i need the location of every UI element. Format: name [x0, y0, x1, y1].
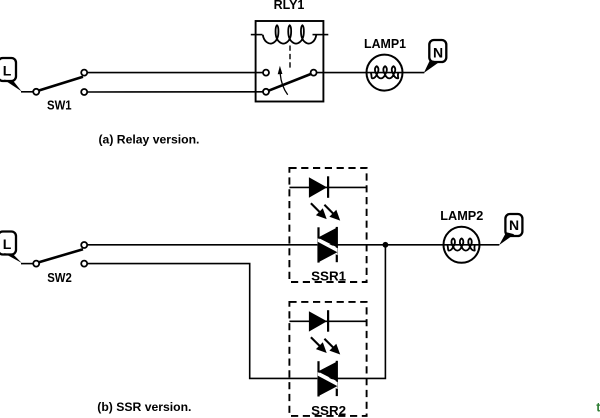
switch SW2 lower throw contact [81, 261, 87, 267]
switch SW1 lower throw contact [81, 89, 87, 95]
solid-state relay SSR2 dashed package outline [289, 302, 366, 416]
SSR1 triac left terminal bar [317, 227, 319, 262]
svg-text:t: t [596, 400, 600, 414]
solid-state relay SSR1 dashed package outline [289, 168, 366, 282]
switch SW1 blade [39, 77, 83, 91]
SSR2 triac left terminal bar [317, 361, 319, 396]
SSR2 LED (anode triangle) [309, 311, 327, 331]
SSR1 triac right terminal bar [336, 227, 338, 262]
svg-text:N: N [433, 44, 443, 60]
SSR2 triac right terminal bar [336, 361, 338, 396]
switch SW1 upper throw contact [81, 70, 87, 76]
svg-text:N: N [509, 217, 519, 233]
SSR2 LED input wire [289, 320, 366, 322]
relay RLY1 body outline [256, 21, 324, 102]
lamp LAMP1 bulb [367, 55, 403, 91]
RLY1 coil right lead [313, 34, 329, 36]
SSR1 LED input wire [289, 186, 366, 188]
svg-text:RLY1: RLY1 [274, 0, 305, 12]
SSR1 optocoupler light arrow 2 [324, 205, 334, 215]
terminal L (live, circuit b) [0, 232, 16, 255]
svg-text:SW1: SW1 [47, 97, 72, 112]
SSR1 LED cathode bar [327, 176, 329, 198]
terminal N (neutral, circuit a) [429, 40, 446, 62]
SSR2 optocoupler light arrow 1 [311, 337, 321, 347]
terminal L tail (circuit b) [4, 253, 22, 263]
RLY1 right contact [311, 70, 317, 76]
SSR1 LED (anode triangle) [309, 177, 327, 197]
terminal N tail (circuit b) [499, 232, 514, 245]
switch SW2 upper throw contact [81, 242, 87, 248]
wire L to SW1 common [21, 91, 33, 93]
wire SW1 upper contact to RLY1 contact [88, 72, 264, 74]
SSR1 triac lower triangle (points right) [318, 242, 338, 263]
svg-text:(a) Relay version.: (a) Relay version. [99, 132, 200, 146]
switch SW2 common pole contact [33, 261, 39, 267]
SSR2 triac white slash (hides wire between triangles) [318, 372, 338, 389]
svg-text:LAMP1: LAMP1 [364, 36, 406, 51]
SSR1 triac white slash (hides wire between triangles) [318, 238, 338, 255]
wire through LAMP1 [367, 72, 424, 74]
wire SW2 lower contact to SSR2 and up to junction [88, 245, 386, 379]
svg-text:SSR2: SSR2 [311, 403, 346, 418]
SSR2 triac upper triangle (points left) [318, 361, 338, 381]
RLY1 contact blade [269, 74, 311, 91]
terminal N tail (circuit a) [424, 60, 440, 73]
LAMP1 filament [371, 66, 398, 78]
svg-text:(b) SSR version.: (b) SSR version. [97, 400, 191, 414]
terminal N (neutral, circuit b) [505, 214, 522, 236]
svg-text:SW2: SW2 [47, 270, 72, 285]
RLY1 coil winding [263, 25, 317, 43]
RLY1 upper-left contact [263, 70, 269, 76]
wire SW1 lower contact to RLY1 contact [88, 91, 264, 93]
SSR2 triac lower triangle (points right) [318, 376, 338, 397]
RLY1 actuation dashed link [289, 46, 291, 68]
switch SW2 blade [39, 249, 83, 262]
SSR1 optocoupler light arrow 1 [311, 203, 321, 213]
svg-text:SSR1: SSR1 [311, 269, 346, 284]
switch SW1 common pole contact [33, 89, 39, 95]
SSR2 LED cathode bar [327, 310, 329, 332]
wire SW2 upper contact through SSR1 to LAMP2 [88, 244, 500, 246]
RLY1 lower-left contact [263, 89, 269, 95]
lamp LAMP2 bulb [444, 227, 480, 263]
svg-text:LAMP2: LAMP2 [440, 208, 483, 223]
wire RLY1 to LAMP1 [317, 72, 367, 74]
LAMP2 filament [447, 238, 474, 250]
SSR2 optocoupler light arrow 2 [324, 339, 334, 349]
wire L to SW2 common [21, 263, 33, 265]
junction node [383, 242, 389, 248]
svg-text:L: L [3, 62, 12, 78]
RLY1 actuation arrow [280, 74, 288, 95]
svg-text:L: L [3, 236, 12, 252]
terminal L (live, circuit a) [0, 58, 16, 81]
SSR1 triac upper triangle (points left) [318, 227, 338, 247]
RLY1 coil left lead [251, 34, 263, 36]
terminal L tail (circuit a) [4, 80, 22, 92]
